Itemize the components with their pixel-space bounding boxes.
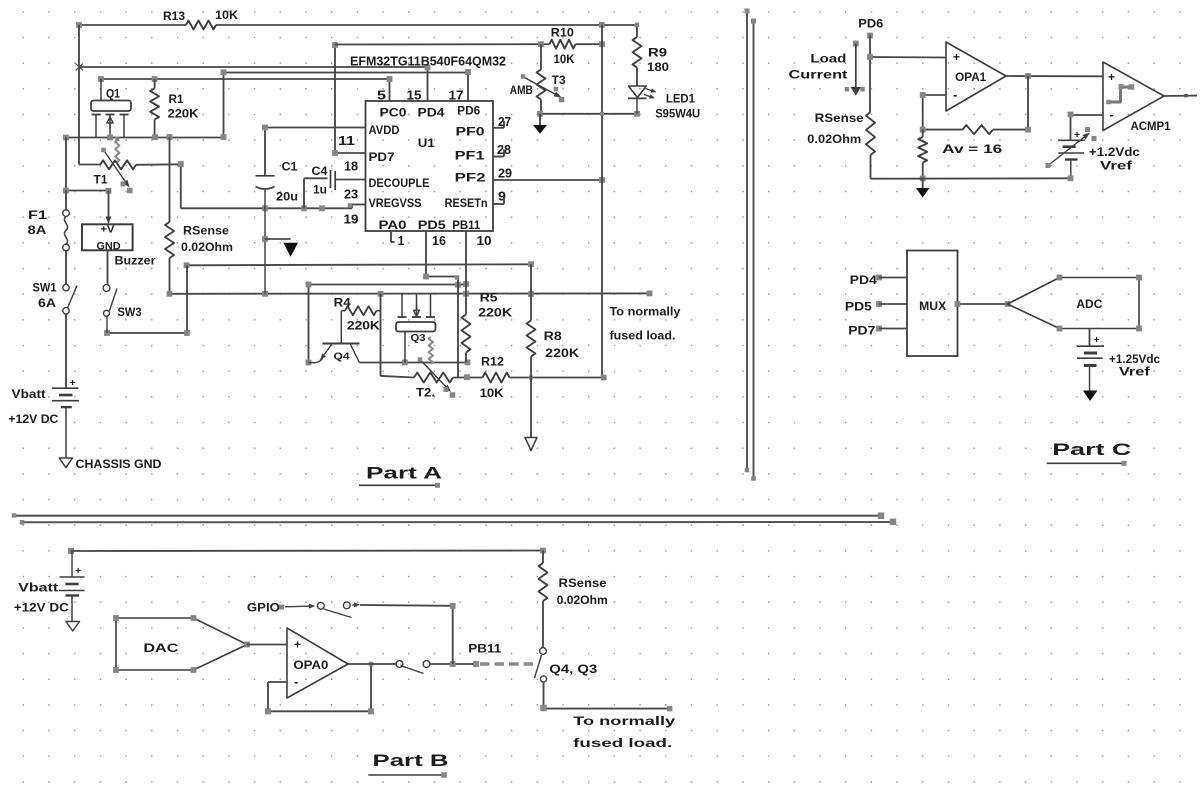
svg-text:5: 5: [377, 89, 386, 103]
svg-text:Buzzer: Buzzer: [115, 256, 157, 268]
svg-text:C1: C1: [282, 162, 299, 174]
wire: [510, 377, 604, 379]
wire: [544, 682, 670, 708]
pin PF0 stub: [493, 121, 504, 128]
svg-text:PD7: PD7: [369, 152, 395, 164]
label R8 220K: [544, 331, 580, 360]
svg-text:T2.: T2.: [416, 388, 435, 400]
svg-text:+12V DC: +12V DC: [14, 603, 69, 615]
squiggle wire T1: [115, 140, 119, 162]
svg-text:PB11: PB11: [452, 220, 481, 232]
svg-text:OPA1: OPA1: [955, 72, 987, 84]
label MUX: [919, 301, 946, 313]
junction: [450, 661, 479, 667]
squiggle wire Q3: [429, 337, 433, 364]
label CHASSIS GND: [76, 459, 162, 471]
svg-text:29: 29: [498, 167, 512, 181]
label Load Current: [789, 54, 848, 82]
svg-text:15: 15: [407, 89, 422, 103]
label To normally fused load: [573, 714, 675, 750]
label +1.25Vdc Vref: [1109, 354, 1161, 379]
svg-text:Vref: Vref: [1100, 161, 1132, 173]
junction: [867, 54, 873, 60]
junction: [262, 236, 268, 242]
battery Vref 1.2: [1058, 129, 1085, 178]
junction: [1025, 127, 1031, 133]
label Q1: [106, 89, 121, 101]
MUX box: [907, 251, 958, 357]
label Q4: [334, 351, 350, 363]
U1 pin names: [369, 106, 488, 233]
junction: [423, 274, 459, 280]
svg-text:10: 10: [477, 234, 492, 248]
svg-text:16: 16: [432, 234, 446, 248]
wire: [309, 285, 467, 363]
junction: [920, 92, 926, 98]
wire: [380, 294, 382, 376]
node X mark: [76, 64, 84, 71]
svg-text:R10: R10: [551, 26, 574, 40]
label +1.2Vdc Vref: [1089, 147, 1141, 173]
junction: [265, 662, 374, 715]
junction: [104, 330, 190, 336]
junction: [955, 301, 1011, 307]
junction: [450, 603, 456, 609]
op-amp OPA1: [946, 42, 1006, 111]
svg-text:+: +: [953, 50, 960, 64]
junction: [178, 161, 352, 211]
svg-text:Q3: Q3: [411, 332, 426, 344]
pin PD5: [845, 301, 907, 313]
wire PD7: [335, 45, 366, 153]
junction: [221, 69, 471, 75]
svg-text:-: -: [294, 674, 298, 689]
label R5 220K: [478, 293, 513, 320]
label PB11: [468, 642, 501, 656]
svg-text:220K: 220K: [545, 348, 580, 360]
svg-text:6A: 6A: [38, 298, 56, 310]
svg-text:To normally: To normally: [610, 305, 681, 319]
Part B underline: [368, 772, 446, 778]
wire OPA1 out: [1006, 75, 1103, 77]
label Part C: [1052, 440, 1131, 459]
buzzer: [82, 224, 133, 253]
svg-text:-: -: [953, 87, 957, 102]
svg-text:19: 19: [344, 213, 359, 227]
svg-text:SW3: SW3: [118, 307, 142, 319]
svg-text:T1: T1: [94, 175, 109, 187]
junction: [262, 125, 268, 131]
svg-text:Vbatt: Vbatt: [12, 389, 46, 401]
svg-text:SW1: SW1: [33, 283, 58, 295]
chassis ground: [66, 622, 80, 632]
label Part A: [366, 464, 442, 483]
svg-text:ACMP1: ACMP1: [1131, 121, 1172, 133]
wire: [870, 36, 946, 113]
svg-text:Part A: Part A: [366, 464, 442, 483]
svg-text:23: 23: [344, 188, 358, 202]
label GPIO: [247, 603, 280, 615]
resistor Av=16: [918, 130, 927, 179]
wire: [430, 663, 476, 665]
svg-text:PD4: PD4: [418, 108, 446, 120]
node PD6: [867, 33, 873, 39]
ground arrow: [916, 178, 930, 197]
label PD6: [858, 19, 883, 31]
label R10 10K: [551, 26, 575, 67]
label R12 10K: [480, 357, 505, 401]
wire buzzer feed: [106, 191, 112, 224]
svg-text:0.02Ohm: 0.02Ohm: [557, 595, 608, 607]
wire PD6 net: [224, 73, 469, 138]
svg-text:R5: R5: [480, 293, 499, 305]
thermistor T3: [537, 44, 546, 114]
svg-text:Vref: Vref: [1119, 367, 1150, 379]
thermistor T1: [100, 160, 181, 169]
pin PA0 stub: [391, 231, 395, 242]
svg-text:180: 180: [647, 62, 669, 74]
ADC block: [1008, 275, 1142, 332]
junction: [76, 22, 605, 28]
wire: [1071, 115, 1104, 140]
resistor R10: [550, 40, 576, 49]
junction: [635, 23, 640, 28]
T2 arrow: [418, 357, 456, 398]
svg-text:Load: Load: [810, 54, 846, 66]
separator line: [745, 9, 750, 473]
capacitor C4: [304, 170, 366, 208]
T1 arrow: [101, 148, 132, 194]
wire: [601, 25, 603, 378]
wire: [79, 163, 100, 165]
svg-text:+: +: [75, 565, 81, 577]
wire: [65, 314, 67, 388]
switch SW1: [63, 284, 77, 314]
pin PD7: [848, 326, 907, 338]
label C1 20u: [276, 162, 298, 204]
label ADC: [1076, 299, 1102, 311]
svg-text:+12V DC: +12V DC: [8, 414, 58, 426]
battery Vref 1.25: [1077, 329, 1104, 391]
label R1 220K: [168, 94, 200, 121]
label Av = 16: [942, 142, 1002, 156]
svg-text:11: 11: [338, 134, 355, 148]
junction: [425, 65, 431, 71]
wire gate net: [359, 362, 467, 364]
label Q4, Q3: [549, 664, 597, 676]
svg-text:OPA0: OPA0: [293, 660, 328, 672]
label R13 10K: [163, 8, 238, 23]
svg-text:-: -: [1110, 107, 1114, 122]
junction: [540, 705, 672, 712]
label Buzzer: [115, 256, 157, 268]
junction: [538, 41, 605, 47]
junction: [464, 374, 470, 380]
label Vbatt +12V DC: [14, 583, 69, 615]
svg-text:RSense: RSense: [183, 226, 229, 238]
separator line: [751, 19, 756, 481]
svg-text:Part C: Part C: [1052, 440, 1131, 459]
Part A underline: [359, 483, 440, 488]
resistor RSense A: [165, 138, 174, 294]
label DAC: [143, 643, 178, 655]
svg-text:PD7: PD7: [848, 326, 875, 338]
svg-text:Q4: Q4: [334, 351, 350, 363]
svg-text:Current: Current: [789, 70, 848, 82]
svg-text:T3: T3: [552, 75, 566, 87]
wire PD5 jog: [426, 231, 458, 378]
svg-text:PD5: PD5: [418, 220, 447, 232]
capacitor C1: [256, 176, 275, 294]
svg-text:+: +: [1108, 70, 1115, 84]
T3 arrow: [521, 74, 565, 102]
junction: [1025, 73, 1031, 79]
chassis ground: [59, 458, 72, 468]
svg-text:fused load.: fused load.: [573, 736, 672, 750]
wire: [187, 264, 532, 265]
junction: [1068, 112, 1074, 118]
resistor R9: [633, 25, 642, 86]
label R9 180: [647, 48, 669, 75]
label SW3: [118, 307, 142, 319]
svg-text:F1: F1: [28, 210, 48, 222]
label Vbatt +12V DC: [8, 389, 58, 426]
label RSense 0.02Ohm: [557, 578, 608, 607]
svg-text:PC0: PC0: [380, 108, 407, 120]
junction: [402, 360, 470, 366]
label AMB T3: [510, 75, 566, 97]
op-amp OPA0: [287, 628, 348, 698]
battery Vbatt B: [59, 551, 85, 621]
svg-text:MUX: MUX: [919, 301, 946, 313]
wire source bus: [66, 137, 224, 139]
node: [68, 548, 74, 554]
pin RESETn stub: [493, 197, 504, 204]
wire: [107, 250, 109, 284]
svg-text:+: +: [70, 377, 76, 389]
svg-text:PA0: PA0: [379, 220, 407, 232]
svg-text:20u: 20u: [276, 192, 298, 204]
wire feedback: [268, 664, 371, 711]
svg-text:PD5: PD5: [845, 302, 873, 314]
label LED1 S95W4U: [655, 94, 700, 121]
svg-text:LED1: LED1: [666, 94, 696, 106]
svg-text:220K: 220K: [347, 321, 381, 333]
svg-text:To normally: To normally: [573, 714, 675, 728]
svg-text:Q4, Q3: Q4, Q3: [549, 664, 597, 676]
feedback resistor: [963, 125, 994, 134]
svg-text:220K: 220K: [168, 109, 200, 121]
GPIO switch: [279, 602, 360, 618]
svg-text:GPIO: GPIO: [247, 603, 280, 615]
wire: [335, 43, 541, 45]
label SW1 6A: [33, 283, 58, 311]
svg-text:R9: R9: [648, 48, 667, 60]
wire: [871, 177, 1071, 179]
wire PD4 net: [79, 67, 428, 101]
ground arrow: [265, 239, 298, 257]
svg-text:C4: C4: [312, 166, 329, 178]
wire: [993, 76, 1028, 130]
svg-text:18: 18: [344, 160, 358, 174]
junction: [63, 134, 226, 141]
wire: [71, 550, 543, 553]
wire: [181, 164, 366, 208]
thermistor T2: [414, 373, 483, 383]
svg-text:CHASSIS GND: CHASSIS GND: [76, 459, 162, 471]
junction: [920, 176, 926, 182]
wire OPA0 out: [348, 663, 396, 665]
resistor R4: [341, 306, 380, 315]
wire: [541, 43, 602, 45]
wire: [79, 24, 186, 26]
wire AVDD: [265, 128, 366, 176]
svg-text:8A: 8A: [28, 225, 47, 237]
svg-text:+: +: [294, 638, 301, 652]
svg-text:R4: R4: [334, 298, 352, 310]
label Q3: [411, 332, 426, 344]
svg-text:PF2: PF2: [455, 173, 486, 185]
wire load bus: [170, 292, 650, 294]
wire: [78, 25, 80, 163]
svg-text:PF0: PF0: [456, 127, 485, 139]
Load Current arrow: [845, 41, 865, 96]
ground arrow: [1083, 391, 1098, 402]
svg-text:RSense: RSense: [559, 578, 607, 590]
junction: [184, 261, 534, 268]
separator line: [12, 512, 885, 519]
label To normally fused load: [610, 305, 681, 343]
svg-text:EFM32TG11B540F64QM32: EFM32TG11B540F64QM32: [350, 55, 506, 69]
svg-text:+: +: [1094, 334, 1100, 346]
junction: [529, 375, 607, 381]
pin PD4: [850, 275, 907, 287]
svg-text:R13: R13: [163, 9, 185, 23]
label RSense 0.02Ohm: [181, 226, 233, 255]
wire PC0 net: [101, 79, 390, 101]
junction: [306, 281, 469, 365]
svg-text:GND: GND: [97, 240, 121, 252]
wire: [923, 129, 963, 131]
junction: [63, 188, 111, 194]
label F1 8A: [28, 210, 48, 237]
wire ACMP1 out: [1164, 94, 1197, 98]
switch SW3: [103, 285, 117, 333]
resistor R5: [462, 294, 471, 363]
wire: [381, 376, 415, 378]
junction: [167, 291, 653, 297]
label C4 1u: [312, 166, 329, 197]
svg-text:10K: 10K: [215, 8, 238, 22]
battery Vbatt: [52, 377, 79, 457]
svg-text:AMB: AMB: [510, 85, 533, 97]
label R4 220K: [334, 298, 381, 333]
junction: [98, 76, 392, 82]
svg-text:0.02Ohm: 0.02Ohm: [807, 134, 861, 146]
transistor Q1: [91, 79, 131, 138]
svg-text:PD4: PD4: [850, 275, 878, 287]
svg-text:Av = 16: Av = 16: [942, 142, 1002, 156]
fuse F1: [63, 191, 70, 251]
transistor Q3: [396, 294, 436, 363]
svg-text:VREGVSS: VREGVSS: [369, 198, 422, 210]
ground arrow: [533, 114, 547, 134]
wire PB11: [465, 231, 467, 294]
dashed link wire: [480, 662, 533, 666]
svg-text:RSense: RSense: [815, 113, 864, 125]
switch: [396, 661, 430, 674]
separator line: [20, 519, 897, 526]
svg-text:DECOUPLE: DECOUPLE: [369, 178, 430, 190]
switch Q4 Q3: [535, 648, 547, 683]
junction: [920, 127, 926, 133]
open ground arrow: [525, 438, 537, 451]
IC U1 EFM32: [366, 101, 494, 231]
pin PF1 stub: [493, 150, 504, 157]
svg-text:PB11: PB11: [468, 642, 501, 656]
resistor RSense B: [539, 548, 548, 648]
svg-text:10K: 10K: [480, 388, 505, 400]
junction: [537, 111, 640, 117]
svg-text:1: 1: [398, 234, 405, 248]
svg-text:17: 17: [449, 89, 464, 103]
svg-text:R1: R1: [169, 94, 185, 106]
svg-text:PF1: PF1: [455, 151, 486, 163]
label RSense 0.02Ohm: [807, 113, 863, 146]
wire: [216, 24, 637, 26]
label T1: [94, 175, 109, 187]
svg-text:PD6: PD6: [457, 106, 480, 118]
svg-text:R12: R12: [481, 357, 504, 369]
svg-text:ADC: ADC: [1076, 299, 1102, 311]
label Part B: [373, 751, 449, 770]
comparator ACMP1: [1103, 62, 1164, 131]
wire: [923, 95, 946, 130]
wire: [65, 251, 67, 284]
svg-text:R8: R8: [544, 331, 563, 343]
resistor R1: [150, 79, 159, 138]
hysteresis symbol: [1106, 84, 1134, 104]
label T2: [416, 388, 435, 400]
svg-text:fused load.: fused load.: [610, 329, 676, 343]
junction: [332, 42, 338, 156]
svg-text:+1.25Vdc: +1.25Vdc: [1109, 354, 1161, 366]
svg-text:AVDD: AVDD: [369, 125, 400, 137]
svg-text:Part B: Part B: [373, 751, 449, 770]
DAC block: [113, 615, 250, 673]
svg-text:10K: 10K: [554, 52, 575, 66]
U1 pin numbers: [338, 89, 512, 249]
Vref adjust arrow: [1046, 127, 1097, 168]
Part C underline: [1047, 461, 1127, 466]
label ACMP1: [1131, 121, 1172, 133]
LED LED1: [628, 86, 657, 114]
wire: [540, 113, 637, 115]
label EFM32TG11B540F64QM32: [350, 55, 506, 69]
resistor R12: [483, 373, 510, 383]
svg-text:PD6: PD6: [858, 19, 883, 31]
wire: [66, 138, 109, 191]
junction: [1068, 175, 1074, 181]
svg-text:1u: 1u: [313, 185, 327, 197]
svg-text:U1: U1: [418, 138, 436, 150]
svg-text:Q1: Q1: [106, 89, 121, 101]
wire PF2: [493, 179, 602, 181]
svg-text:RESETn: RESETn: [445, 198, 488, 210]
svg-text:+: +: [1074, 129, 1080, 141]
resistor RSense C: [866, 112, 875, 179]
wire: [360, 605, 453, 664]
